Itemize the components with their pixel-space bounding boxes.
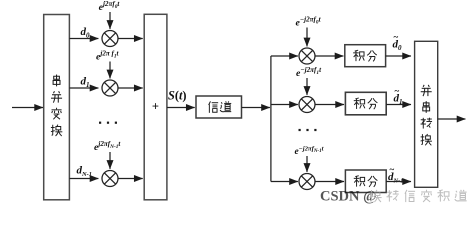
wire TX1 to summer [118,38,143,40]
wire dN-1 to multiplier [69,178,98,180]
wire summer to channel [167,107,195,109]
svg-text:S(t): S(t) [168,89,186,103]
svg-text:CSDN @: CSDN @ [320,189,377,205]
wire d1 to multiplier [69,87,98,89]
svg-text:ej2πfN-1t: ej2πfN-1t [94,140,121,153]
wire RX3 to integrator 3 [315,181,344,183]
svg-text:e−j2πf1t: e−j2πf1t [296,66,322,79]
watermark CSDN [320,189,467,205]
wire integrator3 to P/S [386,181,411,183]
wire integrator1 to P/S [386,55,411,57]
multiplier RX3 [299,174,315,190]
svg-text:e−j2πfN-1t: e−j2πfN-1t [295,145,325,157]
block: integrator 1 积分 [345,45,386,67]
svg-text:e−j2πf0t: e−j2πf0t [296,16,322,29]
svg-text:d0: d0 [81,26,91,39]
multiplier RX1 [299,48,315,64]
wire carrier arrow into TX1 [109,12,111,29]
block: serial-to-parallel converter 串并变换 [44,15,70,200]
wire carrier arrow into RX3 [306,156,308,172]
svg-text:ej2π f1t: ej2π f1t [96,50,120,63]
wire: system output arrow [438,118,466,120]
wire carrier arrow into RX2 [306,78,308,95]
svg-text:+: + [152,100,159,114]
label: 串并变换 vertical text (drawn strokes) [51,75,62,136]
label: 信道 (drawn strokes) [209,101,232,112]
wire carrier arrow into TX2 [109,62,111,79]
svg-text:~: ~ [394,32,399,42]
wire bus to RX3 [271,181,298,183]
label: 并串转换 vertical text (drawn strokes) [421,85,432,145]
wire TX3 to summer [118,178,143,180]
block: integrator 2 积分 [345,92,386,115]
svg-text:dN-1: dN-1 [77,165,92,179]
wire bus to RX1 [271,55,298,57]
svg-text:d1: d1 [81,76,90,89]
multiplier RX2 [299,97,315,113]
block: integrator 3 积分 [345,170,386,193]
wire carrier arrow into TX3 [109,152,111,169]
block: parallel-to-serial converter 并串转换 [415,41,438,187]
multiplier TX2 [102,80,118,96]
wire carrier arrow into RX1 [306,28,308,47]
wire d0 to multiplier [69,38,98,40]
wire RX2 to integrator 2 [315,104,344,106]
block: channel 信道 [196,96,242,118]
bus vertical line [270,56,272,182]
block: summer [144,14,167,200]
multiplier TX3 [102,171,118,187]
wire RX1 to integrator 1 [315,55,343,57]
wire: system input arrow [12,107,43,109]
wire bus to RX2 [271,104,298,106]
svg-text:~: ~ [395,86,400,96]
wire channel to bus [242,107,270,109]
wire integrator2 to P/S [386,104,411,106]
wire TX2 to summer [118,87,143,89]
svg-text:ej2πf0t: ej2πf0t [99,0,121,13]
ellipsis dots TX [99,122,117,124]
ellipsis dots RX [299,129,317,131]
svg-text:~: ~ [390,165,395,175]
multiplier TX1 [102,31,118,47]
